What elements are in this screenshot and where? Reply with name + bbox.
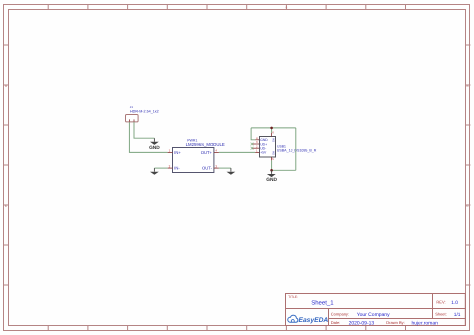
wire USB GND pin up to shield loop bbox=[251, 128, 255, 140]
svg-text:1.0: 1.0 bbox=[451, 300, 458, 306]
ground GND3 bbox=[227, 168, 236, 175]
wire shield pin5 down bbox=[271, 160, 273, 170]
module PWR1 pin 1 IN+ bbox=[168, 149, 182, 155]
svg-text:USBA_1J_DS1095_B_R: USBA_1J_DS1095_B_R bbox=[277, 148, 317, 152]
usb USB1 pin 4 GND bbox=[255, 136, 268, 142]
usb connector USB1 designator bbox=[277, 144, 286, 148]
connector J1 body bbox=[126, 115, 139, 122]
usb USB1 pin 2 no-connect X bbox=[251, 147, 254, 150]
rev label bbox=[436, 300, 445, 305]
title label bbox=[288, 295, 298, 299]
module PWR1 pin 4 OUT+ bbox=[201, 149, 219, 155]
module PWR1 body bbox=[173, 148, 214, 173]
svg-text:GND: GND bbox=[266, 177, 277, 183]
svg-text:TITLE:: TITLE: bbox=[288, 295, 298, 299]
svg-text:+5V: +5V bbox=[260, 151, 267, 155]
date label bbox=[331, 320, 341, 325]
title block frame bbox=[286, 294, 466, 326]
sheet title Sheet_1 bbox=[311, 299, 334, 306]
border section labels bbox=[5, 6, 470, 209]
drawn by value bbox=[412, 320, 439, 326]
wire shield bottom loop bbox=[272, 169, 296, 171]
svg-text:hujer.roman: hujer.roman bbox=[412, 320, 439, 326]
svg-text:Sheet:: Sheet: bbox=[435, 311, 447, 316]
ground GND4 bbox=[266, 170, 277, 183]
svg-text:LM2596S_MODULE: LM2596S_MODULE bbox=[186, 142, 225, 147]
sheet num value bbox=[454, 312, 461, 318]
rev value 1.0 bbox=[451, 300, 458, 306]
EasyEDA logo bbox=[288, 315, 329, 324]
junction top shield bbox=[270, 127, 273, 130]
junction bottom shield bbox=[270, 169, 273, 172]
svg-text:REV:: REV: bbox=[436, 300, 445, 305]
usb USB1 pin 1 +5V bbox=[255, 149, 267, 155]
drawn by label bbox=[386, 320, 404, 325]
module PWR1 value LM2596S_MODULE bbox=[186, 142, 225, 147]
ground GND2 bbox=[150, 168, 159, 175]
module PWR1 pin 3 OUT- bbox=[202, 164, 219, 170]
svg-text:EasyEDA: EasyEDA bbox=[299, 317, 329, 324]
svg-text:B: B bbox=[466, 84, 468, 88]
svg-text:Date:: Date: bbox=[331, 320, 341, 325]
usb USB1 pin 3 no-connect X bbox=[251, 143, 254, 146]
svg-text:SH: SH bbox=[272, 138, 276, 142]
usb connector USB1 body bbox=[260, 137, 276, 158]
svg-text:2020-09-13: 2020-09-13 bbox=[349, 320, 375, 326]
wire OUT- to GND3 bbox=[219, 167, 231, 169]
svg-text:B: B bbox=[5, 84, 7, 88]
svg-text:GND: GND bbox=[149, 145, 160, 151]
usb USB1 pin 3 UD+ bbox=[252, 140, 267, 146]
svg-text:IN-: IN- bbox=[174, 166, 180, 171]
ground GND1 bbox=[149, 138, 160, 151]
svg-text:1/1: 1/1 bbox=[454, 312, 461, 318]
usb USB1 pin 2 UD- bbox=[252, 144, 266, 150]
company value bbox=[357, 312, 390, 318]
wire J1 pin2 to GND bbox=[134, 122, 154, 138]
usb USB1 shield pin 6 top bbox=[272, 131, 276, 142]
svg-text:OUT-: OUT- bbox=[202, 166, 213, 171]
wire IN- to GND2 bbox=[154, 167, 167, 169]
svg-text:SH: SH bbox=[272, 151, 276, 155]
svg-text:HDR-M-2.54_1x2: HDR-M-2.54_1x2 bbox=[130, 109, 159, 113]
connector J1 value HDR-M-2.54_1x2 bbox=[130, 109, 159, 113]
module PWR1 designator bbox=[187, 139, 197, 143]
svg-text:Company:: Company: bbox=[331, 311, 349, 316]
wire shield right loop bbox=[295, 128, 297, 170]
wire shield pin6 stub bbox=[271, 128, 273, 133]
usb USB1 shield pin 5 bottom bbox=[272, 151, 276, 161]
svg-text:OUT+: OUT+ bbox=[201, 150, 213, 155]
wire OUT+ to USB +5V bbox=[219, 151, 255, 153]
date value bbox=[349, 320, 375, 326]
svg-text:IN+: IN+ bbox=[174, 150, 181, 155]
svg-text:Your Company: Your Company bbox=[357, 312, 390, 318]
svg-text:Sheet_1: Sheet_1 bbox=[311, 299, 334, 306]
wire shield top loop bbox=[251, 127, 296, 129]
module PWR1 pin 2 IN- bbox=[168, 164, 181, 170]
connector J1 designator bbox=[130, 105, 134, 109]
svg-text:Drawn By:: Drawn By: bbox=[386, 320, 404, 325]
company label bbox=[331, 311, 349, 316]
wire J1 pin1 to IN+ bbox=[129, 122, 167, 152]
sheet num label bbox=[435, 311, 447, 316]
usb connector USB1 value USBA_1J_DS1095_B_R bbox=[277, 148, 317, 152]
